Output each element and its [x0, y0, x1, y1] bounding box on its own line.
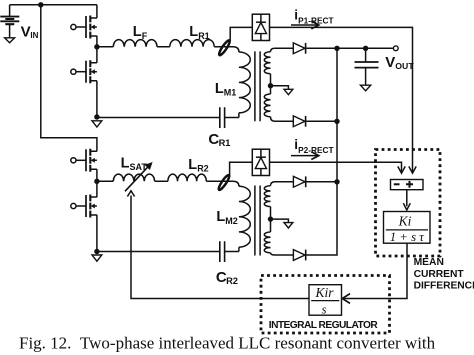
svg-text:L: L: [133, 24, 142, 40]
svg-text:L: L: [121, 155, 130, 171]
svg-text:F: F: [142, 31, 148, 41]
svg-text:1 + s τ: 1 + s τ: [390, 230, 425, 244]
svg-text:P2-RECT: P2-RECT: [298, 145, 334, 155]
svg-text:DIFFERENCE: DIFFERENCE: [414, 280, 474, 291]
svg-text:L: L: [215, 81, 224, 97]
svg-text:R1: R1: [219, 138, 231, 148]
svg-text:P1-RECT: P1-RECT: [298, 15, 334, 25]
svg-text:M1: M1: [224, 88, 237, 98]
svg-text:L: L: [216, 209, 225, 225]
svg-text:V: V: [385, 54, 395, 71]
svg-text:Ki: Ki: [398, 213, 412, 228]
svg-text:R1: R1: [198, 31, 210, 41]
svg-text:L: L: [189, 24, 198, 40]
svg-text:SAT: SAT: [130, 162, 148, 172]
svg-text:V: V: [21, 24, 31, 41]
svg-text:M2: M2: [225, 216, 238, 226]
svg-text:L: L: [188, 157, 197, 173]
svg-text:s: s: [322, 302, 327, 316]
svg-text:R2: R2: [197, 163, 209, 173]
svg-text:R2: R2: [226, 276, 238, 286]
svg-text:Kir: Kir: [314, 285, 334, 300]
svg-text:MEAN: MEAN: [414, 257, 444, 268]
svg-text:Fig. 12. Two-phase interleave: Fig. 12. Two-phase interleaved LLC reson…: [19, 334, 436, 353]
svg-text:IN: IN: [30, 31, 38, 40]
svg-text:CURRENT: CURRENT: [414, 269, 465, 280]
svg-text:OUT: OUT: [395, 61, 414, 71]
svg-text:INTEGRAL REGULATOR: INTEGRAL REGULATOR: [269, 320, 379, 331]
